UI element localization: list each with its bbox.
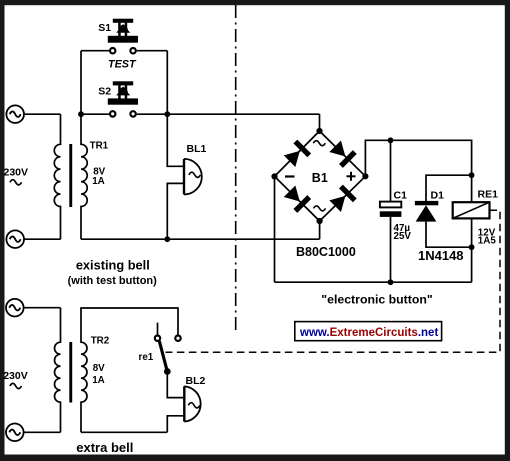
AC source (mains, TR1 bottom) — [6, 230, 24, 248]
svg-text:"electronic button": "electronic button" — [321, 293, 433, 307]
transformer TR1 secondary winding — [81, 51, 87, 240]
svg-text:C1: C1 — [394, 189, 408, 201]
transformer TR2 core — [69, 342, 72, 403]
wire primary bottom TR2 — [24, 431, 61, 433]
svg-text:RE1: RE1 — [478, 189, 499, 201]
pushbutton S2 — [108, 81, 138, 116]
wire bottom dc rail — [275, 281, 472, 283]
svg-text:BL1: BL1 — [187, 143, 207, 155]
node C1 bottom — [388, 279, 394, 285]
wire BL1 branch upper — [167, 114, 184, 166]
wire S2 row left — [81, 113, 109, 115]
svg-text:1A5: 1A5 — [478, 236, 497, 247]
AC source (mains, TR2 top) — [6, 299, 24, 317]
svg-text:S2: S2 — [98, 85, 111, 97]
dash-dot section separator — [235, 5, 237, 333]
wire relay mechanical link dashed — [166, 210, 501, 352]
diode B1 lower-right — [328, 185, 356, 213]
tilde under 230V (top) — [10, 180, 22, 185]
bell BL2 — [184, 386, 200, 421]
wire bridge top feed — [319, 114, 321, 131]
wire S2 row right — [137, 113, 168, 115]
capacitor C1 — [380, 140, 402, 282]
relay RE1 — [453, 202, 490, 218]
bridge rectifier B1 diamond — [275, 131, 366, 221]
svg-text:re1: re1 — [139, 352, 154, 363]
svg-text:8V: 8V — [93, 363, 105, 374]
svg-text:BL2: BL2 — [186, 375, 206, 387]
wire top rail to bridge — [167, 113, 319, 115]
svg-text:1A: 1A — [92, 375, 105, 386]
svg-text:1N4148: 1N4148 — [418, 248, 464, 263]
switch re1 arm — [159, 341, 167, 372]
node BL1 top junction — [164, 111, 170, 117]
tilde bridge bottom — [314, 206, 326, 211]
diode B1 lower-left — [283, 184, 311, 212]
node re1 pivot — [164, 368, 171, 375]
wire BL1 branch lower — [167, 183, 184, 239]
diode B1 upper-left — [283, 140, 311, 168]
wire S1 right vertical — [166, 51, 168, 114]
svg-text:25V: 25V — [394, 231, 412, 242]
wire BL2 branch upper — [167, 372, 184, 398]
svg-text:B80C1000: B80C1000 — [296, 245, 356, 259]
switch re1 right contact — [175, 336, 180, 341]
svg-text:B1: B1 — [312, 171, 328, 185]
transformer TR1 primary winding — [54, 114, 60, 239]
node secondary top junction — [78, 111, 84, 117]
wire positive rail — [365, 140, 471, 202]
wire bridge bottom feed — [319, 221, 321, 239]
transformer TR2 primary winding — [55, 308, 61, 433]
diode B1 upper-right — [328, 139, 356, 167]
node BL1 bottom junction — [164, 236, 170, 242]
AC source (mains, TR2 bottom) — [6, 424, 24, 442]
wire primary bottom TR1 — [24, 238, 61, 240]
bell BL1 — [184, 159, 202, 195]
node bridge top — [316, 128, 322, 134]
svg-text:(with test button): (with test button) — [68, 275, 158, 287]
node bridge bottom — [317, 218, 323, 224]
svg-text:TR2: TR2 — [91, 336, 110, 347]
node D1 top — [469, 172, 475, 178]
node C1 top — [388, 137, 394, 143]
wire primary top TR2 — [24, 307, 61, 309]
transformer TR1 core — [69, 144, 72, 207]
wire bottom rail to bridge — [81, 238, 320, 240]
svg-text:extra bell: extra bell — [76, 440, 133, 455]
switch re1 left contact — [155, 336, 160, 341]
minus sign — [285, 175, 295, 177]
svg-text:www.ExtremeCircuits.net: www.ExtremeCircuits.net — [299, 327, 438, 339]
svg-text:TEST: TEST — [108, 58, 137, 70]
wire BL2 branch lower — [167, 416, 184, 433]
svg-text:existing bell: existing bell — [76, 258, 150, 273]
svg-text:D1: D1 — [431, 189, 445, 201]
svg-text:S1: S1 — [98, 22, 111, 34]
svg-text:1A: 1A — [92, 176, 105, 187]
diode D1 — [415, 175, 472, 247]
tilde bridge top — [313, 141, 325, 146]
svg-text:230V: 230V — [3, 370, 28, 382]
wire primary top TR1 — [24, 113, 61, 115]
wire negative left feed — [274, 176, 276, 282]
transformer TR2 secondary winding — [81, 308, 178, 432]
pushbutton S1 — [108, 19, 138, 54]
svg-text:TR1: TR1 — [90, 140, 109, 151]
node D1 bottom — [469, 244, 475, 250]
AC source (mains, TR1 top) — [6, 105, 24, 123]
tilde under 230V (bottom) — [10, 383, 22, 388]
wire TR2 secondary bottom — [81, 431, 167, 433]
wire relay bottom vertical — [471, 218, 473, 282]
node bridge left — [271, 173, 277, 179]
svg-text:230V: 230V — [4, 166, 29, 178]
wire S1 row left — [81, 50, 109, 52]
node bridge right — [362, 173, 368, 179]
watermark box — [295, 322, 442, 341]
switch re1 left contact stub — [157, 323, 159, 335]
wire S1 row right — [137, 50, 168, 52]
plus sign — [347, 172, 356, 181]
